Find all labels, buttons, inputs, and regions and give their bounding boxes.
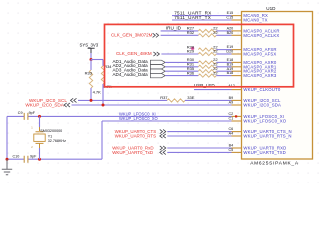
svg-text:SYS_3V3: SYS_3V3 [80,42,99,47]
svg-text:A9: A9 [229,101,234,105]
svg-text:33E: 33E [187,95,194,100]
svg-text:A4: A4 [229,132,234,136]
svg-text:MCASP0_ACLKX: MCASP0_ACLKX [243,33,279,38]
svg-text:IRU_ID: IRU_ID [166,26,182,31]
svg-text:MCAN0_TX: MCAN0_TX [243,18,267,23]
svg-text:R36: R36 [187,70,195,75]
svg-text:R33: R33 [85,71,93,76]
svg-text:E18: E18 [227,58,234,62]
svg-text:SM03200000: SM03200000 [40,129,62,133]
svg-text:22: 22 [213,70,218,75]
svg-text:22: 22 [213,30,218,35]
svg-text:A20: A20 [227,27,234,31]
svg-text:C2: C2 [228,112,233,116]
svg-text:WKUP_CLKOUT0: WKUP_CLKOUT0 [243,87,280,92]
svg-text:WKUP_LFOSC0_XO: WKUP_LFOSC0_XO [119,116,158,121]
svg-text:Y1: Y1 [48,134,53,138]
svg-text:E15: E15 [227,11,234,15]
svg-text:MCASP0_AFSX: MCASP0_AFSX [243,52,276,57]
svg-text:9pF: 9pF [30,154,37,158]
svg-text:B4: B4 [229,144,234,148]
svg-text:CLK_GEN_3M072M: CLK_GEN_3M072M [111,32,153,37]
svg-text:WKUP_I2C0_SDA: WKUP_I2C0_SDA [243,103,281,108]
svg-text:B9: B9 [229,96,234,100]
svg-text:C9: C9 [18,111,23,115]
svg-text:C6: C6 [228,127,233,131]
svg-text:R29: R29 [187,49,195,54]
svg-text:E19: E19 [227,45,234,49]
svg-text:WKUP_UART0_TXD: WKUP_UART0_TXD [243,150,286,155]
svg-text:AM625SIPAMK_A: AM625SIPAMK_A [250,160,299,166]
svg-text:D20: D20 [226,50,233,54]
svg-text:22: 22 [213,49,218,54]
svg-text:7511_UART_TX: 7511_UART_TX [174,15,211,20]
svg-text:32.768KHz: 32.768KHz [48,139,66,143]
svg-text:MCASP0_AXR3: MCASP0_AXR3 [243,73,276,78]
svg-text:WKUP_LFOSC0_XO: WKUP_LFOSC0_XO [243,119,286,124]
svg-text:U1D: U1D [266,6,276,11]
svg-text:WKUP_I2C0_SDA: WKUP_I2C0_SDA [25,103,64,108]
svg-text:4.7K: 4.7K [93,90,102,95]
svg-text:B18: B18 [227,71,234,75]
svg-text:C15: C15 [226,16,233,20]
svg-text:AD4_Audio_Data: AD4_Audio_Data [113,72,149,77]
svg-text:R37: R37 [160,95,168,100]
svg-text:R34: R34 [104,64,112,69]
svg-text:C1: C1 [228,117,233,121]
svg-text:WKUP_UART0_RTS: WKUP_UART0_RTS [115,134,157,139]
svg-text:C5: C5 [228,148,233,152]
svg-text:A19: A19 [227,67,234,71]
svg-text:B20: B20 [227,31,234,35]
svg-text:C10: C10 [13,154,20,158]
svg-text:9pF: 9pF [29,111,36,115]
svg-text:CLK_GEN_48KM: CLK_GEN_48KM [116,51,152,56]
svg-text:B19: B19 [227,62,234,66]
svg-text:R32: R32 [187,30,195,35]
svg-text:WKUP_UART0_RTS_N: WKUP_UART0_RTS_N [243,134,291,139]
svg-text:WKUP_UART0_TxD: WKUP_UART0_TxD [112,150,153,155]
